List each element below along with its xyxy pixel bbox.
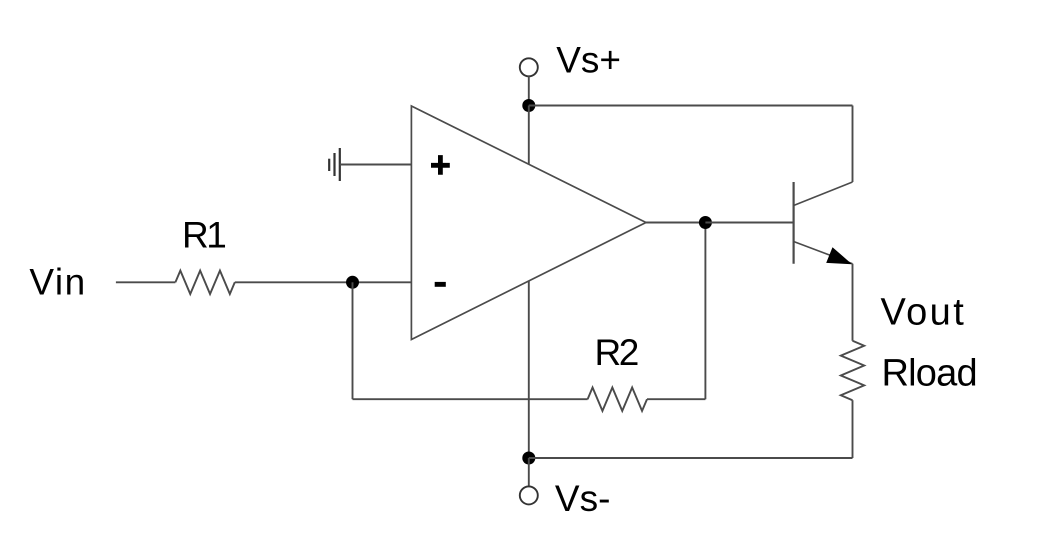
wire R1 to inverting input xyxy=(235,281,412,283)
wire op-amp output to node xyxy=(646,222,705,224)
wire emitter to Rload xyxy=(852,264,854,341)
svg-text:Vs-: Vs- xyxy=(555,478,611,519)
wire feedback rail left segment xyxy=(353,398,588,400)
wire junction down to feedback rail xyxy=(352,282,354,399)
node output junction xyxy=(699,216,712,229)
terminal Vs+ xyxy=(520,58,538,76)
ground xyxy=(329,148,340,181)
op-amp U1 xyxy=(411,106,646,340)
terminal Vs- xyxy=(520,486,538,504)
svg-text:Rload: Rload xyxy=(882,352,977,394)
svg-text:Vin: Vin xyxy=(29,262,86,303)
node Vs+ junction xyxy=(522,99,535,112)
op-amp - input marker xyxy=(435,282,446,287)
wire R2 right segment xyxy=(647,398,705,400)
wire Vs+ terminal to junction xyxy=(528,76,530,105)
wire Vin to R1 xyxy=(116,281,175,283)
svg-text:Vout: Vout xyxy=(881,292,967,334)
wire op-amp bottom edge down to Vs- junction xyxy=(528,281,530,458)
wire feedback vertical up to output node xyxy=(704,223,706,400)
resistor Rload xyxy=(841,341,864,400)
node inverting-input junction xyxy=(346,276,359,289)
svg-text:R2: R2 xyxy=(595,332,638,373)
wire ground to non-inverting input xyxy=(340,164,412,166)
wire node to transistor base xyxy=(705,222,793,224)
resistor R2 xyxy=(588,388,647,411)
node Vs- junction xyxy=(522,452,535,465)
wire top rail drop to collector xyxy=(852,106,854,183)
svg-text:R1: R1 xyxy=(182,215,225,256)
wire Vs+ junction down to op-amp top edge xyxy=(528,106,530,165)
transistor Q1 xyxy=(794,182,853,264)
wire top rail xyxy=(529,105,853,107)
resistor R1 xyxy=(175,271,234,294)
op-amp + input marker xyxy=(431,155,450,175)
wire Vs- junction to terminal xyxy=(528,458,530,486)
wire Rload bottom to rail xyxy=(852,400,854,458)
wire bottom rail xyxy=(529,457,853,459)
svg-text:Vs+: Vs+ xyxy=(556,40,621,81)
